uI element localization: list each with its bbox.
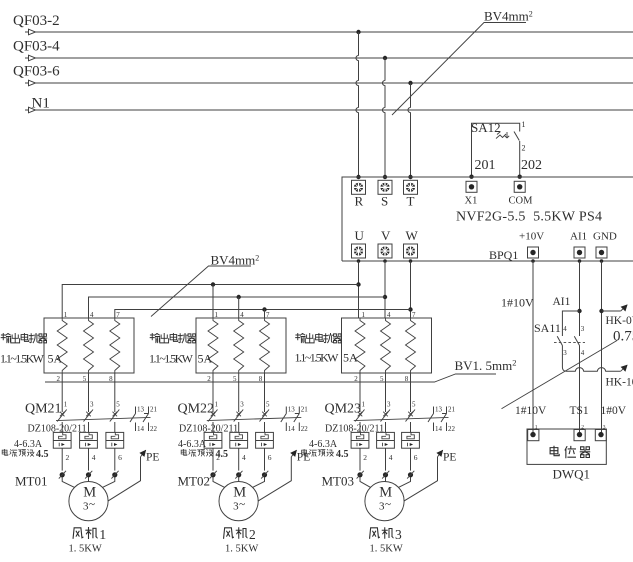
motor MT02 (178, 450, 311, 555)
motor feed wires (360, 477, 371, 488)
svg-text:4: 4 (387, 311, 391, 319)
svg-text:21: 21 (301, 406, 309, 414)
reactor L2 label 输出电抗器 (149, 333, 213, 365)
auxiliary contact 21-22 of QM23 (441, 407, 447, 432)
auxiliary contact 13-14 of QM22 (281, 407, 287, 432)
SA11 feed from AI1 (562, 311, 579, 336)
reactor L3 winding 1 (355, 318, 365, 373)
svg-text:3: 3 (603, 424, 606, 430)
svg-text:4.5: 4.5 (336, 449, 349, 460)
cable core mark (236, 472, 241, 477)
wire bus QF03-6 (13, 64, 633, 86)
wire TS1 from SA11 to pot, hops HK-10V (579, 346, 581, 435)
svg-text:2: 2 (216, 453, 220, 462)
svg-text:1.1~1.5KW: 1.1~1.5KW (149, 352, 194, 366)
wire feed line W phase (115, 307, 411, 318)
breaker trip linkage (207, 417, 301, 420)
circuit breaker QM23 (302, 373, 456, 471)
svg-text:1#10V: 1#10V (501, 296, 534, 310)
reactor L3 winding 3 (406, 318, 416, 373)
svg-text:COM: COM (509, 196, 534, 207)
cable core mark (112, 472, 117, 477)
reactor L1 winding 1 (57, 318, 67, 373)
reactor L2 box (196, 311, 286, 383)
svg-text:X1: X1 (465, 196, 478, 207)
svg-text:~: ~ (239, 499, 245, 511)
auxiliary contact 21-22 of QM22 (294, 407, 300, 432)
terminal X1 (465, 181, 478, 206)
svg-text:4: 4 (389, 453, 393, 462)
SA11 mechanical link dashed (554, 341, 585, 343)
svg-text:4-6.3A: 4-6.3A (178, 439, 207, 450)
svg-text:4-6.3A: 4-6.3A (309, 439, 338, 450)
thermal overload element 1 (53, 432, 71, 448)
svg-text:4: 4 (240, 311, 244, 319)
cable core mark (86, 472, 91, 477)
svg-text:PE: PE (443, 452, 456, 464)
wire U drop to reactor3 (356, 259, 360, 318)
svg-text:GND: GND (593, 231, 617, 243)
auxiliary contact 13-14 of QM21 (130, 407, 136, 432)
motor circle M 3~ (365, 482, 404, 521)
cable core mark (60, 472, 65, 477)
thermal overload element 1 (351, 432, 369, 448)
thermal overload element 2 (230, 432, 248, 448)
SA11 right pole blade (574, 336, 579, 345)
motor feed wires (213, 477, 225, 488)
wire AI1 drop (578, 259, 582, 263)
wire drop T (408, 81, 413, 179)
svg-text:BV4mm2: BV4mm2 (211, 253, 260, 268)
svg-text:7: 7 (116, 311, 120, 319)
svg-text:202: 202 (521, 158, 542, 173)
potentiometer DWQ1 box (527, 424, 606, 481)
svg-text:V: V (381, 228, 391, 243)
svg-text:4.5: 4.5 (36, 449, 49, 460)
svg-text:1: 1 (64, 311, 68, 319)
svg-text:QM22: QM22 (178, 402, 215, 417)
svg-text:SA11: SA11 (534, 321, 561, 335)
svg-text:BV1. 5mm2: BV1. 5mm2 (455, 357, 517, 373)
svg-text:U: U (355, 228, 365, 243)
reactor L3 label 输出电抗器 (295, 333, 359, 364)
svg-text:QF03-4: QF03-4 (13, 39, 60, 55)
svg-text:5: 5 (412, 401, 416, 409)
thermal overload element 3 (402, 432, 420, 448)
svg-text:QM21: QM21 (25, 402, 62, 417)
wire drop S (382, 56, 387, 179)
switch SA11 (534, 311, 585, 357)
motor feed wires (62, 477, 75, 488)
pot terminal 3 (595, 430, 606, 441)
svg-text:6: 6 (414, 453, 418, 462)
label BV4mm2 top with leader (392, 9, 533, 116)
svg-text:3: 3 (395, 527, 402, 542)
svg-text:1: 1 (362, 311, 366, 319)
svg-text:5A: 5A (48, 352, 63, 366)
svg-text:QM23: QM23 (325, 402, 362, 417)
wire feed line V phase (89, 295, 386, 318)
svg-text:BV4mm2: BV4mm2 (484, 9, 533, 24)
VFD frame BPQ1 (342, 177, 633, 261)
svg-text:MT03: MT03 (322, 474, 355, 489)
wire bus QF03-2 (13, 13, 633, 35)
terminal S (378, 180, 392, 208)
svg-text:22: 22 (448, 425, 456, 433)
svg-text:HK-10V: HK-10V (606, 377, 633, 389)
svg-text:5A: 5A (198, 352, 213, 366)
svg-text:SA12: SA12 (471, 120, 501, 135)
label 电流预设 4.5 (2, 449, 8, 455)
circuit breaker QM21 (2, 373, 157, 471)
PE wire with arrow (404, 457, 438, 501)
svg-text:1. 5KW: 1. 5KW (69, 544, 102, 555)
svg-text:PE: PE (146, 452, 159, 464)
breaker pole 5 (114, 373, 116, 412)
svg-text:3: 3 (563, 349, 567, 357)
svg-text:~: ~ (385, 499, 391, 511)
PE wire with arrow (258, 457, 291, 501)
svg-text:R: R (355, 194, 364, 209)
reactor L1 winding 2 (84, 318, 94, 373)
svg-text:201: 201 (475, 158, 496, 173)
svg-text:3: 3 (387, 401, 391, 409)
SA11 left pole blade (557, 336, 562, 345)
cable core mark (383, 472, 388, 477)
reactor L2 winding 3 (260, 318, 270, 373)
svg-text:MT02: MT02 (178, 474, 211, 489)
circuit breaker QM22 (178, 373, 309, 471)
svg-text:3: 3 (240, 401, 244, 409)
reactor L1 label 输出电抗器 (0, 333, 63, 365)
motor circle M 3~ (219, 482, 258, 521)
svg-text:4: 4 (92, 453, 96, 462)
cable core mark (357, 472, 362, 477)
label BV1.5mm2 with leader (45, 357, 517, 382)
breaker pole 3 (385, 373, 387, 412)
terminal GND (593, 231, 617, 259)
svg-text:13: 13 (435, 406, 443, 414)
svg-text:HK-0V: HK-0V (606, 315, 633, 327)
terminal U (352, 228, 366, 258)
terminal COM (509, 181, 534, 206)
thermal overload element 2 (377, 432, 395, 448)
svg-text:~: ~ (89, 499, 95, 511)
svg-text:3: 3 (581, 325, 585, 333)
auxiliary contact 21-22 of QM21 (143, 407, 149, 432)
cable core mark (262, 472, 267, 477)
terminal V (378, 228, 392, 258)
svg-text:13: 13 (137, 406, 145, 414)
svg-text:1.1~1.5KW: 1.1~1.5KW (295, 351, 340, 365)
svg-text:3: 3 (90, 401, 94, 409)
svg-text:14: 14 (137, 425, 145, 433)
label BV4mm2 lower with leader (151, 253, 259, 317)
svg-text:7: 7 (412, 311, 416, 319)
svg-text:4: 4 (90, 311, 94, 319)
svg-text:1: 1 (64, 401, 68, 409)
svg-text:5A: 5A (343, 351, 358, 365)
motor circle M 3~ (69, 482, 108, 521)
svg-text:DWQ1: DWQ1 (553, 467, 591, 482)
svg-text:QF03-6: QF03-6 (13, 64, 60, 80)
svg-text:1: 1 (215, 401, 219, 409)
svg-text:21: 21 (150, 406, 158, 414)
svg-text:AI1: AI1 (553, 296, 571, 308)
svg-text:21: 21 (448, 406, 456, 414)
PE wire with arrow (108, 457, 141, 501)
wire bus N1 (25, 96, 633, 113)
svg-text:PE: PE (297, 452, 310, 464)
svg-text:2: 2 (581, 424, 584, 430)
label 电流预设 4.5 (181, 449, 187, 455)
svg-text:1#10V: 1#10V (515, 405, 547, 417)
wire V drop to reactor3 (383, 259, 387, 318)
svg-text:1: 1 (99, 528, 106, 543)
reactor L3 winding 2 (381, 318, 391, 373)
cable core mark (210, 472, 215, 477)
breaker trip linkage (354, 417, 449, 420)
svg-text:1: 1 (522, 120, 526, 129)
wire HK-0V from GND with arrow (602, 310, 621, 312)
svg-text:6: 6 (118, 453, 122, 462)
label 风机2 (224, 528, 234, 538)
wire +10V drop to potentiometer (531, 259, 535, 263)
wire drop R (356, 30, 361, 179)
motor MT01 (15, 450, 159, 555)
motor MT03 (322, 450, 457, 555)
svg-text:2: 2 (522, 144, 526, 153)
svg-text:NVF2G-5.5 5.5KW PS4: NVF2G-5.5 5.5KW PS4 (456, 210, 602, 225)
breaker pole 5 (264, 373, 266, 412)
svg-text:W: W (406, 228, 419, 243)
terminal R (352, 180, 366, 208)
svg-text:1. 5KW: 1. 5KW (370, 544, 403, 555)
label 风机3 (370, 528, 380, 538)
reactor L1 winding 3 (110, 318, 120, 373)
svg-text:14: 14 (288, 425, 296, 433)
terminal W (404, 228, 419, 258)
reactor L2 winding 2 (234, 318, 244, 373)
terminal +10V (519, 231, 544, 259)
svg-text:1: 1 (535, 424, 538, 430)
wire bus QF03-4 (13, 39, 633, 61)
wire HK-10V from SA11 with hops and arrow (562, 346, 620, 372)
svg-text:4: 4 (563, 325, 567, 333)
label 电位器 (550, 446, 559, 456)
svg-text:14: 14 (435, 425, 443, 433)
breaker pole 5 (410, 373, 412, 412)
svg-text:4: 4 (581, 349, 585, 357)
pot terminal 1 (528, 430, 539, 441)
svg-text:AI1: AI1 (570, 231, 587, 243)
svg-text:TS1: TS1 (570, 405, 589, 417)
svg-text:22: 22 (150, 425, 158, 433)
terminal T (404, 180, 418, 208)
svg-text:1#0V: 1#0V (601, 405, 627, 417)
svg-text:4: 4 (242, 453, 246, 462)
auxiliary contact 13-14 of QM23 (428, 407, 434, 432)
svg-text:+10V: +10V (519, 231, 544, 243)
svg-text:QF03-2: QF03-2 (13, 13, 60, 29)
wire W drop to reactor3 (408, 259, 412, 318)
label 风机1 (73, 528, 83, 538)
svg-text:BPQ1: BPQ1 (489, 248, 518, 262)
svg-text:2: 2 (249, 527, 256, 542)
switch SA12 (469, 120, 542, 179)
leader line for 0.75 (502, 341, 618, 409)
svg-text:7: 7 (266, 311, 270, 319)
svg-text:1. 5KW: 1. 5KW (225, 544, 258, 555)
svg-text:2: 2 (363, 453, 367, 462)
cable core mark (408, 472, 413, 477)
thermal overload element 1 (204, 432, 222, 448)
svg-text:5: 5 (116, 401, 120, 409)
svg-text:22: 22 (301, 425, 309, 433)
thermal overload element 2 (80, 432, 98, 448)
svg-text:0.75: 0.75 (613, 329, 633, 345)
reactor L2 winding 1 (208, 318, 218, 373)
breaker trip linkage (56, 417, 151, 420)
svg-text:T: T (407, 194, 415, 209)
reactor L3 box (342, 311, 432, 383)
svg-text:6: 6 (268, 453, 272, 462)
wire GND drop 1#0V (600, 259, 604, 263)
breaker pole 1 (212, 373, 214, 412)
svg-text:S: S (381, 194, 388, 209)
svg-text:2: 2 (66, 453, 70, 462)
terminal AI1 (570, 231, 587, 259)
reactor L1 box (44, 311, 134, 383)
label 电流预设 4.5 (302, 449, 308, 455)
svg-text:1: 1 (362, 401, 366, 409)
svg-text:13: 13 (288, 406, 296, 414)
thermal overload element 3 (256, 432, 274, 448)
wire feed line U phase (62, 282, 358, 318)
breaker pole 1 (61, 373, 63, 412)
svg-text:1: 1 (215, 311, 219, 319)
svg-text:MT01: MT01 (15, 474, 48, 489)
svg-text:5: 5 (266, 401, 270, 409)
breaker pole 1 (359, 373, 361, 412)
pot terminal 2 (574, 430, 585, 441)
breaker pole 3 (238, 373, 240, 412)
breaker pole 3 (88, 373, 90, 412)
svg-text:1.1~1.5KW: 1.1~1.5KW (0, 352, 45, 366)
thermal overload element 3 (106, 432, 124, 448)
